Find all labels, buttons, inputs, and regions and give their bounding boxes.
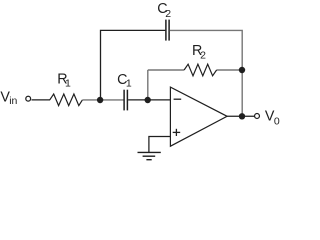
wire op-amp noninverting input to ground [149,137,171,153]
wire op-amp output [227,115,254,117]
wire C1 to op-amp inverting input [128,99,170,101]
svg-text:0: 0 [274,116,280,128]
op-amp U1 [170,87,227,146]
wire R2 left down to inverting node (gray) [147,70,149,100]
wire node A up and over to C2 [101,30,166,100]
label C2 [157,1,171,20]
label R2 [192,43,206,62]
capacitor C2 [166,20,169,41]
ground [138,152,161,159]
junction R2 output side [239,67,245,73]
svg-text:1: 1 [126,78,132,90]
terminal Vin [26,96,31,101]
junction node A [97,97,103,103]
label C1 [117,72,132,90]
svg-text:2: 2 [200,50,206,62]
svg-text:2: 2 [165,8,171,20]
wire R1 to C1 through node A (gray) [82,99,123,101]
label R1 [57,72,71,90]
wire Vin terminal to R1 [32,99,51,101]
resistor R2 [184,64,217,76]
label Vin [0,90,17,107]
terminal V0 [255,114,260,119]
junction inverting node [145,97,151,103]
junction output node [239,113,245,119]
label V0 [265,108,280,127]
resistor R1 [50,94,83,106]
wire R2 right lead (gray) [217,69,242,71]
capacitor C1 [124,90,127,111]
svg-text:1: 1 [65,78,71,90]
wire R2 left lead (gray) [148,69,184,71]
op-amp plus sign [173,129,181,136]
svg-text:in: in [9,95,17,107]
op-amp minus sign [174,98,182,100]
wire C2 right plate over and down to output node (gray) [170,30,242,116]
